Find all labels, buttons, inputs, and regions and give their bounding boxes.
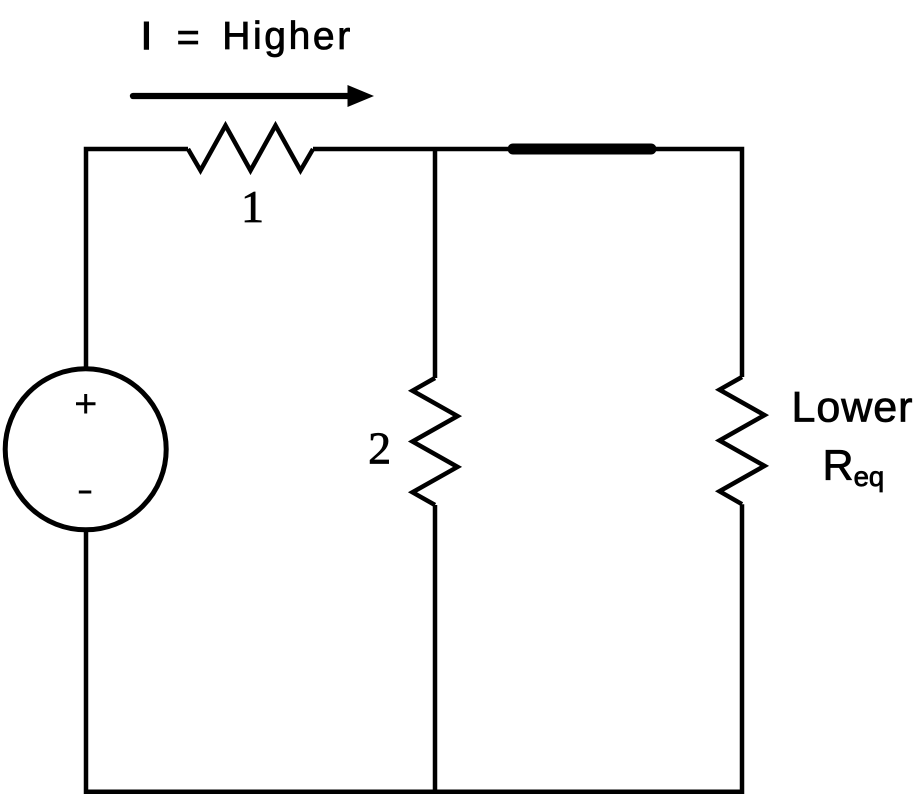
svg-text:Higher: Higher — [222, 15, 350, 58]
wire: node A drop from top wire to R2 top terminal — [433, 149, 438, 378]
svg-text:Lower: Lower — [792, 383, 913, 431]
V1 minus sign — [79, 491, 92, 494]
svg-text:I: I — [141, 15, 152, 58]
short jumper bar (thick conductor) on top-right wire — [513, 144, 651, 155]
wire: R1 right terminal across node A to top-right corner, down to Req top — [313, 149, 742, 377]
wire: R2 bottom terminal down to bottom wire — [433, 505, 438, 792]
resistor Req (right, vertical) — [720, 377, 765, 504]
svg-text:2: 2 — [368, 423, 391, 474]
svg-text:1: 1 — [241, 181, 264, 232]
wire: V1 bottom, bottom return wire, up to Req bottom terminal — [86, 504, 742, 792]
current label "I = Higher" — [141, 15, 350, 59]
voltage source V1 (circle) — [5, 369, 166, 530]
resistor R1 (top, horizontal) — [188, 126, 313, 171]
svg-text:Req: Req — [823, 442, 885, 493]
V1 plus sign — [76, 394, 96, 414]
svg-text:=: = — [177, 15, 200, 59]
resistor R2 (middle, vertical) — [413, 378, 458, 505]
wire: left vertical + top wire to R1 left terminal — [86, 149, 188, 368]
current direction arrow I — [133, 85, 374, 107]
